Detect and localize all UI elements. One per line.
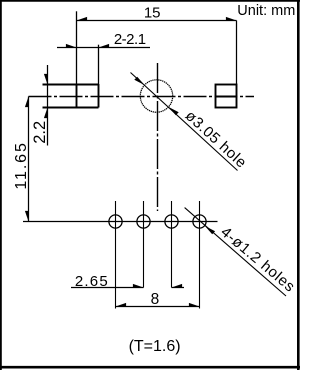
vertical centerline	[157, 63, 159, 211]
svg-text:8: 8	[151, 291, 160, 308]
dim 11.65	[13, 97, 30, 222]
svg-text:2-2.1: 2-2.1	[114, 31, 146, 48]
hole circles	[109, 215, 206, 228]
horizontal centerline	[29, 96, 255, 98]
right tab outline	[216, 21, 237, 108]
dim 2.2	[31, 65, 49, 146]
center hole circle (dotted)	[140, 80, 172, 112]
dim 15	[77, 5, 237, 22]
svg-text:11.65: 11.65	[13, 141, 30, 189]
svg-text:2.2: 2.2	[31, 121, 49, 144]
svg-text:ø3.05 hole: ø3.05 hole	[182, 107, 250, 171]
leader dia 3.05	[131, 73, 251, 172]
svg-text:(T=1.6): (T=1.6)	[129, 338, 181, 355]
leader 4-dia1.2	[185, 208, 299, 296]
svg-text:2.65: 2.65	[75, 273, 109, 290]
dim 8	[116, 291, 200, 308]
svg-text:Unit: mm: Unit: mm	[237, 3, 295, 19]
dim 2.65	[71, 273, 184, 290]
hole verticals	[116, 201, 200, 309]
svg-text:15: 15	[144, 5, 161, 22]
svg-text:4-ø1.2 holes: 4-ø1.2 holes	[217, 224, 298, 296]
dim 2-2.1	[57, 31, 150, 48]
hole row centerline	[23, 221, 218, 223]
left tab outline	[43, 11, 99, 107]
